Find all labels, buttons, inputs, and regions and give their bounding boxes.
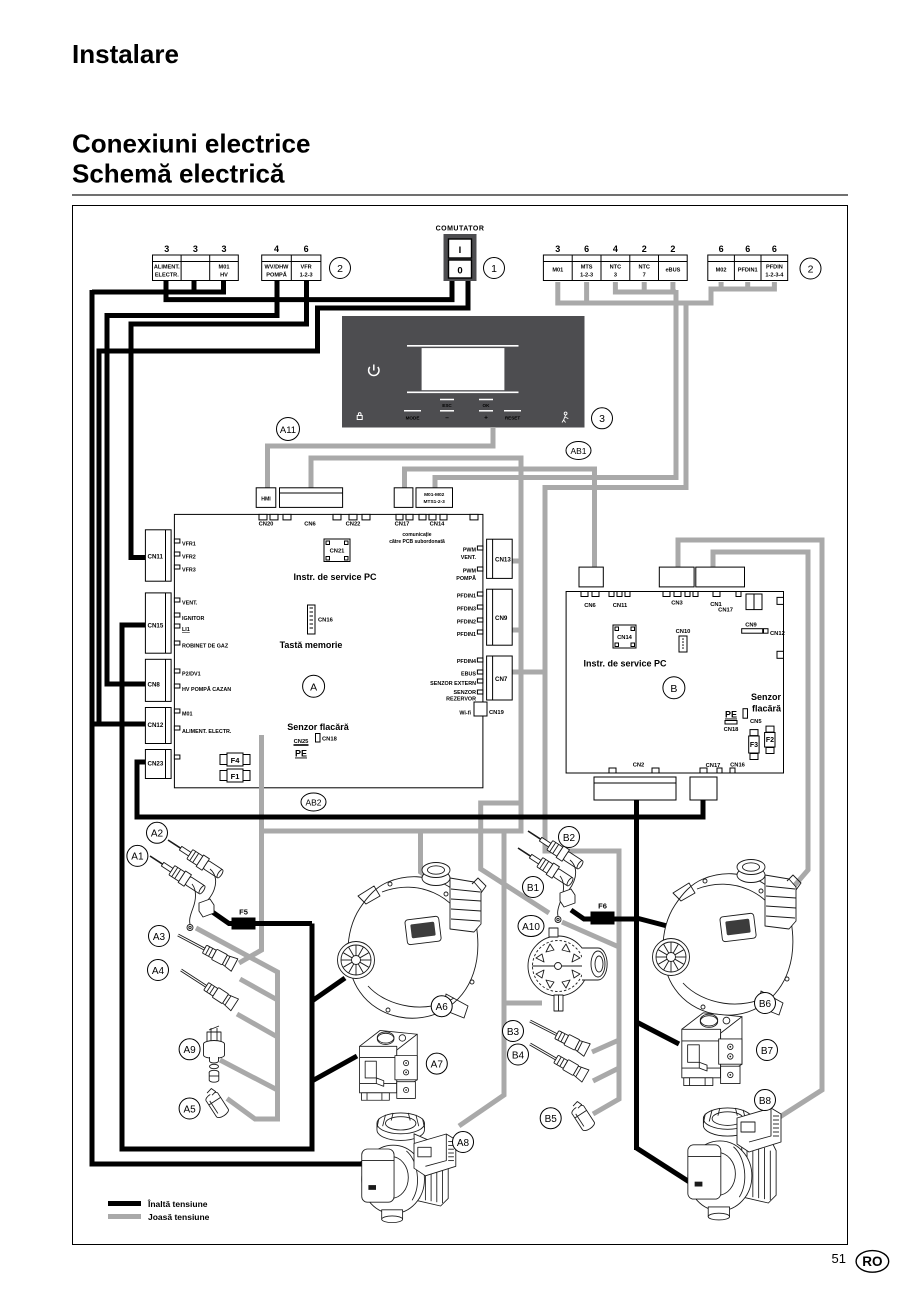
callout circle 2 right <box>800 258 821 279</box>
svg-text:CN6: CN6 <box>584 603 596 609</box>
svg-text:B1: B1 <box>527 883 540 894</box>
svg-text:4: 4 <box>274 244 279 254</box>
svg-text:AB2: AB2 <box>305 797 321 807</box>
wire left main vertical to A8 pump <box>92 290 382 1164</box>
chimney sweep icon <box>562 412 568 422</box>
connector CN3 mate <box>659 567 694 587</box>
node A <box>303 675 325 697</box>
connector CN7 <box>487 656 513 700</box>
gas valve B7 <box>682 1013 742 1086</box>
node AB2 <box>301 793 326 811</box>
wire PFDIN1 stub <box>745 282 750 287</box>
wire CN6A connector to low-voltage trunk <box>311 458 521 834</box>
wire branch to B8 pump <box>637 1148 692 1183</box>
label circle A9 <box>179 1039 200 1060</box>
svg-text:către PCB subordonată: către PCB subordonată <box>389 539 445 545</box>
svg-text:CN12: CN12 <box>148 722 164 729</box>
connector CN5 <box>743 709 762 725</box>
PCB A right edge notches <box>477 546 483 694</box>
svg-text:ALIMENT.: ALIMENT. <box>154 265 180 271</box>
svg-text:ALIMENT. ELECTR.: ALIMENT. ELECTR. <box>182 729 232 735</box>
svg-text:M01-M02: M01-M02 <box>424 492 445 498</box>
svg-text:Schemă electrică: Schemă electrică <box>72 159 285 189</box>
label circle A4 <box>148 960 169 981</box>
svg-text:2: 2 <box>808 263 814 275</box>
svg-text:REZERVOR: REZERVOR <box>446 697 476 703</box>
wire MTS terminal stub <box>584 282 589 301</box>
fan assembly A6 <box>338 863 487 1019</box>
svg-text:7: 7 <box>643 272 646 278</box>
fuse F4 <box>220 753 250 766</box>
connector CN21 <box>324 539 350 562</box>
svg-text:CN7: CN7 <box>495 676 508 683</box>
wire control panel to HMI connector <box>268 427 494 488</box>
svg-text:B3: B3 <box>507 1027 520 1038</box>
svg-text:AB1: AB1 <box>570 446 586 456</box>
wire PFDIN stub <box>772 282 777 287</box>
pressure switch A10 <box>528 928 607 1011</box>
wire branch to A10 top <box>481 803 549 913</box>
wire low voltage bus M01-MTS <box>555 292 711 304</box>
svg-text:CN25: CN25 <box>294 739 310 745</box>
MODE button <box>404 410 421 412</box>
RO language badge <box>856 1251 889 1273</box>
svg-text:B4: B4 <box>512 1050 525 1061</box>
svg-text:CN18: CN18 <box>322 737 338 743</box>
connector CN18 B <box>724 721 740 734</box>
svg-text:4: 4 <box>613 244 618 254</box>
svg-text:PFDIN2: PFDIN2 <box>457 620 476 626</box>
svg-text:B7: B7 <box>761 1046 774 1057</box>
svg-text:HV POMPĂ CAZAN: HV POMPĂ CAZAN <box>182 686 231 693</box>
electrode B2 lead wire <box>567 860 576 893</box>
svg-text:Wi-fi: Wi-fi <box>459 711 471 717</box>
PCB A left edge notches <box>174 539 180 759</box>
svg-text:flacără: flacără <box>752 704 782 714</box>
terminal block ALIMENT.ELECTR. / blank / M01 HV <box>153 244 239 281</box>
fuse F1 <box>220 769 250 782</box>
label circle A3 <box>149 926 170 947</box>
svg-text:F6: F6 <box>598 902 607 911</box>
fuse F3 <box>749 730 759 760</box>
connector CN12 <box>145 708 171 744</box>
connector M01-M02 MTS1-2-3 mate <box>416 488 453 508</box>
svg-text:VFR3: VFR3 <box>182 568 196 574</box>
wire NTC3 stub <box>613 282 618 290</box>
wire M01 HV terminal to left bus <box>92 280 224 292</box>
svg-text:B8: B8 <box>759 1096 772 1107</box>
connector CN14 chip <box>613 625 636 648</box>
svg-text:F2: F2 <box>766 737 774 744</box>
callout circle 2 left <box>330 258 351 279</box>
svg-text:M01: M01 <box>219 265 230 271</box>
svg-text:Instr. de service PC: Instr. de service PC <box>583 659 667 669</box>
OK button <box>479 399 493 401</box>
fuse F5 <box>232 908 256 930</box>
svg-text:CN9: CN9 <box>495 615 508 622</box>
svg-text:CN3: CN3 <box>671 601 683 607</box>
wire MTS group down to CN7 <box>511 301 686 672</box>
svg-text:B5: B5 <box>545 1114 558 1125</box>
wire M02 stub <box>719 282 724 287</box>
plug A5 <box>202 1087 230 1120</box>
svg-text:CN5: CN5 <box>750 719 762 725</box>
svg-text:B: B <box>670 683 677 695</box>
svg-text:Instr. de service PC: Instr. de service PC <box>293 572 377 582</box>
svg-text:POMPĂ: POMPĂ <box>456 575 476 582</box>
svg-text:A4: A4 <box>152 966 165 977</box>
svg-text:CN16: CN16 <box>730 763 746 769</box>
wire PE lead inside board A <box>259 735 264 789</box>
svg-text:NTC: NTC <box>638 265 650 271</box>
fuse F2 <box>765 726 775 753</box>
connector CN9 <box>487 589 513 645</box>
svg-text:ELECTR.: ELECTR. <box>155 272 179 278</box>
svg-text:A2: A2 <box>151 829 164 840</box>
wire branch to A7 gas valve <box>312 1056 357 1081</box>
svg-text:MTS1-2-3: MTS1-2-3 <box>424 499 446 505</box>
svg-text:A11: A11 <box>280 425 296 436</box>
terminal box on pump A8 <box>414 1134 456 1176</box>
svg-text:SENZOR EXTERN: SENZOR EXTERN <box>430 681 476 687</box>
svg-text:F5: F5 <box>239 908 248 917</box>
wire eBUS group down to M01-M02 MTS connector <box>435 290 676 488</box>
svg-text:A8: A8 <box>457 1138 470 1149</box>
svg-text:B2: B2 <box>563 833 576 844</box>
svg-text:CN12: CN12 <box>770 631 785 637</box>
connector CN9 B <box>742 623 785 638</box>
wire PCB B CN1 mate to B6 fan PWM <box>713 552 808 892</box>
wire NTC7 stub <box>642 282 647 290</box>
svg-text:M01: M01 <box>552 268 563 274</box>
electrode A1 lead wire <box>190 884 196 924</box>
svg-text:CN9: CN9 <box>745 623 757 629</box>
svg-text:PFDIN1: PFDIN1 <box>457 632 476 638</box>
terminal box on pump B8 <box>737 1108 781 1152</box>
wire branch to A6 fan PWM <box>421 831 439 885</box>
PCB A top edge pin notches <box>259 514 478 520</box>
connector CN11 <box>145 530 171 581</box>
svg-text:CN23: CN23 <box>148 761 164 768</box>
label circle B8 <box>755 1090 776 1111</box>
pump A8 <box>362 1113 448 1223</box>
label circle A8 <box>453 1132 474 1153</box>
wire CN13 stub to trunk <box>511 559 521 564</box>
svg-text:A6: A6 <box>436 1002 449 1013</box>
svg-text:VENT.: VENT. <box>461 555 477 561</box>
svg-text:+: + <box>484 415 488 422</box>
connector CN25 <box>294 739 310 745</box>
connector CN23 <box>145 750 171 779</box>
B electrode ring terminal <box>555 917 561 923</box>
electrode B1 <box>514 842 575 888</box>
electrode B2 <box>524 825 585 871</box>
svg-text:OK: OK <box>483 403 491 408</box>
electrode ring terminal <box>187 925 193 931</box>
svg-text:PWM: PWM <box>463 569 477 575</box>
svg-text:6: 6 <box>584 244 589 254</box>
connector CN13 <box>487 539 513 578</box>
svg-text:2: 2 <box>670 244 675 254</box>
svg-text:2: 2 <box>337 263 343 275</box>
wire B sensor loop from CN7 node <box>545 670 619 1114</box>
connector CN2 mate box <box>594 777 676 800</box>
svg-text:3: 3 <box>599 413 605 425</box>
svg-text:CN19: CN19 <box>489 710 505 716</box>
control panel display unit <box>342 316 585 428</box>
wire A10 to B sensor loop <box>562 922 619 947</box>
legend low voltage line <box>108 1214 141 1219</box>
wire M02/PFDIN bus <box>709 287 777 292</box>
svg-text:F4: F4 <box>231 756 241 765</box>
wire CN9 stub to trunk <box>511 628 521 633</box>
svg-text:Înaltă tensiune: Înaltă tensiune <box>147 1198 208 1209</box>
pressure sensor A9 <box>204 1026 225 1082</box>
wire NTC/eBUS bus <box>613 290 676 295</box>
connector CN10 <box>676 629 691 652</box>
svg-text:3: 3 <box>193 244 198 254</box>
svg-text:MTS: MTS <box>581 265 593 271</box>
B electrode connector plug <box>560 889 575 907</box>
svg-text:RESET: RESET <box>505 416 521 421</box>
svg-text:Conexiuni electrice: Conexiuni electrice <box>72 129 310 159</box>
callout circle 3 <box>592 408 613 429</box>
svg-text:A10: A10 <box>522 922 540 933</box>
wire trunk lower branch bus <box>263 829 521 834</box>
wire A9 sensor branch <box>220 1060 278 1090</box>
label circle B2 <box>559 827 580 848</box>
svg-text:CN17: CN17 <box>718 608 733 614</box>
label circle A2 <box>147 822 168 843</box>
connector CN8 <box>145 659 171 701</box>
svg-text:PE: PE <box>295 749 307 759</box>
svg-text:1: 1 <box>491 263 497 275</box>
svg-text:CN17: CN17 <box>395 522 410 528</box>
svg-text:Senzor flacără: Senzor flacără <box>287 722 350 732</box>
label circle B3 <box>503 1021 524 1042</box>
connector CN17/CN16 mate box <box>690 777 717 800</box>
svg-text:CN13: CN13 <box>495 557 511 564</box>
svg-text:2: 2 <box>642 244 647 254</box>
connector CN17 mate <box>394 488 413 508</box>
connector CN19 <box>474 702 505 716</box>
svg-text:HMI: HMI <box>261 497 271 503</box>
label circle A5 <box>179 1098 200 1119</box>
label circle B1 <box>523 877 544 898</box>
wire blank terminal stub <box>192 280 197 292</box>
svg-text:CN16: CN16 <box>318 618 334 624</box>
svg-text:3: 3 <box>555 244 560 254</box>
gas valve A7 <box>360 1031 418 1101</box>
svg-text:CN14: CN14 <box>430 522 446 528</box>
wire VFR to CN11 <box>131 280 307 558</box>
svg-text:I: I <box>459 245 462 256</box>
svg-text:F3: F3 <box>750 742 758 749</box>
svg-text:LI1: LI1 <box>182 627 190 633</box>
svg-text:CN6: CN6 <box>304 522 316 528</box>
svg-text:VFR1: VFR1 <box>182 542 196 548</box>
svg-text:CN11: CN11 <box>148 554 164 561</box>
svg-text:P2/DV1: P2/DV1 <box>182 672 201 678</box>
node A11 <box>277 418 300 441</box>
svg-text:CN8: CN8 <box>148 682 161 689</box>
svg-text:6: 6 <box>304 244 309 254</box>
wire electrode connector to F5 junction <box>211 911 312 924</box>
svg-text:CN18: CN18 <box>724 727 740 733</box>
svg-text:PFDIN3: PFDIN3 <box>457 607 476 613</box>
wire CN15 loop to burner group <box>122 625 312 1149</box>
svg-text:1-2-3-4: 1-2-3-4 <box>765 272 784 278</box>
plug B5 <box>568 1100 596 1133</box>
svg-text:A3: A3 <box>153 932 166 943</box>
electrode connector plug <box>199 899 214 917</box>
svg-text:–: – <box>445 415 449 422</box>
svg-text:CN22: CN22 <box>346 522 361 528</box>
label circle B5 <box>540 1108 561 1129</box>
lock icon <box>357 413 362 420</box>
svg-text:CN17: CN17 <box>706 763 721 769</box>
label circle B6 <box>755 993 776 1014</box>
svg-text:COMUTATOR: COMUTATOR <box>436 226 485 233</box>
svg-text:A7: A7 <box>431 1059 444 1070</box>
label circle B4 <box>508 1044 529 1065</box>
connector CN15 <box>145 593 171 653</box>
svg-text:NTC: NTC <box>610 265 622 271</box>
svg-text:comunicație: comunicație <box>402 532 431 538</box>
PCB B right edge notches <box>777 597 784 658</box>
wire CN12 entry <box>90 722 160 727</box>
label circle A10 <box>518 916 544 937</box>
wire ALIMENT.ELECTR. to switch input <box>166 280 452 300</box>
svg-text:0: 0 <box>457 266 462 277</box>
svg-text:RO: RO <box>862 1254 882 1269</box>
svg-text:1-2-3: 1-2-3 <box>300 272 313 278</box>
ESC button <box>440 399 454 401</box>
svg-text:PE: PE <box>725 710 737 720</box>
main switch COMUTATOR <box>436 226 485 282</box>
electrode A2 <box>164 834 225 880</box>
pump B8 <box>688 1108 776 1220</box>
connector CN6 mate <box>579 567 603 587</box>
wire CN23 to AB2 interconnect bus <box>137 762 703 817</box>
svg-text:6: 6 <box>745 244 750 254</box>
svg-text:CN10: CN10 <box>676 629 691 635</box>
svg-text:A1: A1 <box>131 852 144 863</box>
svg-text:CN15: CN15 <box>148 623 164 630</box>
svg-text:3: 3 <box>221 244 226 254</box>
sensor B3 <box>527 1015 590 1057</box>
connector CN17 B rect <box>746 594 762 610</box>
wire A4 sensor branch <box>237 1014 278 1037</box>
svg-text:CN20: CN20 <box>259 522 274 528</box>
wire switch output to CN12 <box>99 281 468 724</box>
connector CN18 <box>316 734 338 743</box>
wire branch to B7 gas valve <box>637 1022 680 1044</box>
wire B1/B2 connector to F6 junction <box>571 910 637 919</box>
label circle A7 <box>426 1053 447 1074</box>
wire eBUS stub <box>670 282 675 290</box>
svg-text:VFR: VFR <box>301 265 312 271</box>
connector CN1 mate <box>696 567 745 587</box>
terminal block M01 / MTS / NTC3 / NTC7 / eBUS <box>543 244 687 281</box>
svg-text:EBUS: EBUS <box>461 672 476 678</box>
svg-text:3: 3 <box>164 244 169 254</box>
svg-text:6: 6 <box>719 244 724 254</box>
wire A3 sensor branch <box>240 979 278 1000</box>
node B <box>663 677 685 699</box>
fan assembly B6 <box>653 860 802 1016</box>
terminal block WV/DHW POMPA / VFR 1-2-3 <box>262 244 321 281</box>
svg-text:CN14: CN14 <box>617 635 633 641</box>
svg-text:CN21: CN21 <box>330 549 346 555</box>
connector CN16 memory key <box>308 605 334 634</box>
callout circle 1 <box>484 258 505 279</box>
svg-text:PFDIN1: PFDIN1 <box>457 594 476 600</box>
power icon <box>369 365 379 376</box>
PCB B board <box>566 592 783 774</box>
electrode A1 <box>146 850 207 896</box>
electrode A2 lead wire <box>206 869 216 903</box>
label circle A6 <box>431 996 452 1017</box>
wire branch to B6 fan <box>637 918 672 927</box>
PCB B top edge notches <box>581 592 741 597</box>
svg-text:VFR2: VFR2 <box>182 555 196 561</box>
fuse F6 <box>591 902 615 925</box>
svg-text:A: A <box>310 681 317 693</box>
svg-text:ROBINET DE GAZ: ROBINET DE GAZ <box>182 644 229 650</box>
wire PE flame sensor lead <box>239 734 262 963</box>
label circle A1 <box>127 845 148 866</box>
svg-text:PFDIN4: PFDIN4 <box>457 659 476 665</box>
terminal block M02 / PFDIN1 / PFDIN <box>708 244 788 281</box>
svg-text:VENT.: VENT. <box>182 601 198 607</box>
PCB A board <box>174 514 483 787</box>
svg-text:1-2-3: 1-2-3 <box>580 272 593 278</box>
wire ionisation electrode lead to sensor loop <box>196 928 278 1119</box>
diagram frame border <box>73 206 848 1245</box>
wire branch to A6 fan <box>312 978 345 1001</box>
connector HMI mate <box>256 488 276 508</box>
svg-text:POMPĂ: POMPĂ <box>266 271 287 278</box>
svg-text:PWM: PWM <box>463 548 477 554</box>
svg-text:IGNITOR: IGNITOR <box>182 616 204 622</box>
svg-text:A5: A5 <box>183 1104 196 1115</box>
wire branch to A8 pump PWM and A10 bottom <box>459 831 504 1126</box>
horizontal rule under headings <box>72 194 848 196</box>
svg-text:B6: B6 <box>759 999 772 1010</box>
svg-text:51: 51 <box>832 1251 846 1266</box>
svg-text:SENZOR: SENZOR <box>454 690 477 696</box>
sensor A4 <box>177 964 238 1011</box>
svg-text:ESC: ESC <box>442 403 452 408</box>
svg-text:HV: HV <box>220 272 228 278</box>
svg-text:eBUS: eBUS <box>665 268 680 274</box>
svg-text:M01: M01 <box>182 712 193 718</box>
svg-text:Joasă tensiune: Joasă tensiune <box>148 1212 210 1222</box>
RESET button <box>504 410 521 412</box>
wire CN17 comunicatie to PCB B CN6 <box>405 469 595 568</box>
svg-text:WV/DHW: WV/DHW <box>265 265 290 271</box>
svg-text:3: 3 <box>614 272 617 278</box>
svg-text:PFDIN: PFDIN <box>766 265 783 271</box>
svg-text:A9: A9 <box>183 1045 196 1056</box>
wire B3 sensor branch <box>592 1040 619 1052</box>
svg-text:Instalare: Instalare <box>72 39 179 69</box>
svg-text:6: 6 <box>772 244 777 254</box>
svg-text:M02: M02 <box>716 268 727 274</box>
wire CN2 mate down to B-side loads <box>634 800 639 1150</box>
connector CN6A wide mate <box>280 488 343 508</box>
